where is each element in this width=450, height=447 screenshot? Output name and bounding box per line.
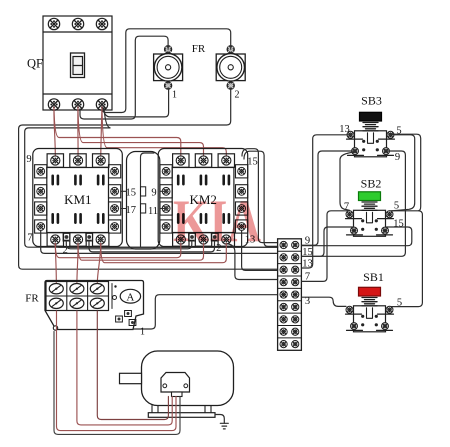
svg-text:9: 9 [395,152,400,163]
contactor KM2 body square [172,168,234,233]
wire SB3 13 to terminal row 13 [302,135,351,268]
svg-text:KIA: KIA [173,188,261,254]
svg-text:15: 15 [393,219,404,230]
thermal relay FR body [45,281,144,330]
thermal relay FR terminal grid [46,282,109,311]
wire KM1 bottom to KM2 bottom (red) [101,244,227,263]
wire terminal row 3 to SB1 [302,297,346,306]
motor terminal box [161,373,190,397]
circuit breaker QF [43,16,112,110]
wire FR L3 out to motor W (red) [97,311,168,420]
wire loop between KM1 and KM2 (capsule) [127,152,160,250]
terminal block X1 [278,239,302,350]
wire KM2 top-right 2 to terminal row 15 [244,151,278,246]
pushbutton SB3 terminals [347,131,395,155]
wire KM1 aux 2 to KM2 aux 2 [66,241,192,249]
ammeter A [120,289,140,303]
svg-text:FR: FR [25,293,39,305]
wire fuse1 top to QF mid [80,36,168,119]
wire FR L1 out to motor U (red) [57,311,177,431]
thermal relay separator and test marks [111,284,113,309]
wire SB2 7 to terminal row 7 [302,211,350,282]
wire QF to KM2 top (red) [54,109,181,159]
wire fuse2 top to QF right [102,29,231,113]
wire KM1 terminal 7 to terminal row 15 [41,231,278,254]
svg-text:7: 7 [27,233,32,244]
wire fuse2 bottom, frame left, to terminal row 13 [19,88,278,269]
svg-text:15: 15 [126,187,137,198]
pushbutton SB2 cap [359,192,381,201]
wire QF right, frame left inner, to terminal row 15 [25,108,278,247]
wire SB3 bottom-right to terminal row 15 [302,151,405,256]
wire KM1 bottom-left to terminal row 9 [55,244,277,248]
wire SB2 bottom-left to terminal row 15 [302,227,354,256]
svg-text:A: A [126,292,134,304]
wire FR L2 out to motor V (red) [77,311,172,425]
pushbutton SB1 cap [359,287,381,296]
contactor KM2 left terminal column [160,165,172,233]
contactor KM1 top terminal boxes [47,154,109,168]
svg-text:SB3: SB3 [361,94,382,108]
svg-text:QF: QF [27,57,43,71]
motor shaft [120,373,142,383]
wire KM1 aux to KM2 aux lower [89,241,215,252]
contactor KM2 enclosure [158,149,248,247]
pushbutton SB2 body [354,210,386,236]
contactor KM1 right terminal column [109,165,121,233]
wire KM1 bottom to FR relay (red) [97,244,100,283]
wire SB3 bottom-left to SB2 7 [340,152,355,210]
contactor KM1 body square [47,168,109,233]
FR element 1 [154,46,183,90]
pushbutton SB2 spring [362,202,377,210]
thermal relay aux terminals [116,311,136,326]
pushbutton SB1 body [354,306,386,332]
svg-text:KM1: KM1 [64,192,91,207]
pushbutton SB3 spring [363,123,378,131]
motor M body [142,351,234,406]
svg-text:SB1: SB1 [363,270,384,284]
wire KM1 bottom to KM2 bottom (red) [78,244,204,261]
FR element 2 [216,46,245,90]
contactor KM2 bottom terminal boxes [173,233,235,247]
svg-text:17: 17 [126,205,137,216]
svg-text:SB2: SB2 [361,177,382,191]
wire QF to KM1 top (red) [54,107,55,159]
svg-text:1: 1 [172,90,177,101]
contactor KM1 contact symbols [51,175,104,225]
svg-text:11: 11 [148,206,158,217]
pushbutton SB3 cap [360,112,382,121]
svg-text:2: 2 [235,90,240,101]
pushbutton SB1 spring [362,298,377,306]
wire stubs KM1 right to capsule [121,191,127,208]
svg-text:FR: FR [192,43,206,55]
wire KM2 top-right to terminal row 9 [242,149,278,243]
contactor KM1 bottom terminal boxes [47,233,109,247]
ground (motor frame) [215,415,228,429]
wire SB3 5 outer branch down [391,134,421,210]
motor base [148,406,215,418]
wire QF to KM1 top (red) [77,107,79,159]
pushbutton SB2 terminals [346,211,394,235]
wire PE to motor (dark) [54,332,180,435]
wire SB3 bottom-left to terminal row 9 [302,151,355,245]
wire KM1 bottom to FR relay (red) [77,244,78,283]
contactor KM2 top terminal boxes [173,154,235,168]
wire SB2 5 to SB1 5 [390,211,423,307]
wire terminal row 9 to SB2 bottom-right [302,227,412,246]
wire QF to KM1 top (red) [101,107,102,159]
wire KM1 bottom to KM2 bottom (red) [55,244,181,258]
wire QF to KM2 top (red) [78,109,204,159]
wire QF to KM2 top (red) [102,109,226,159]
wire KM1 bottom to FR relay (red) [55,244,56,283]
svg-text:1: 1 [140,327,145,338]
contactor KM2 contact symbols [177,175,230,225]
svg-text:15: 15 [247,157,258,168]
thermal relay mounting circle [53,326,57,330]
wire SB3 5 to SB2 5 [391,135,415,211]
svg-text:13: 13 [339,124,350,135]
contactor KM1 enclosure [33,149,123,247]
pushbutton SB3 body [355,131,387,157]
wire inner link in capsule right [141,153,155,247]
wire stubs capsule to KM2 left [160,191,166,208]
svg-text:9: 9 [151,187,156,198]
contactor KM1 left terminal column [35,165,47,233]
svg-text:9: 9 [26,154,31,165]
wire KM2 terminal 13 to terminal row 13 [242,231,278,271]
pushbutton SB1 terminals [346,306,394,330]
wire KM2 bottom-right to terminal row 7 [226,244,277,280]
contactor KM2 right terminal column [236,165,248,233]
wire QF right to fuse1 bottom [103,88,169,117]
wire FR aux 1 to terminal row 3 [133,295,278,329]
